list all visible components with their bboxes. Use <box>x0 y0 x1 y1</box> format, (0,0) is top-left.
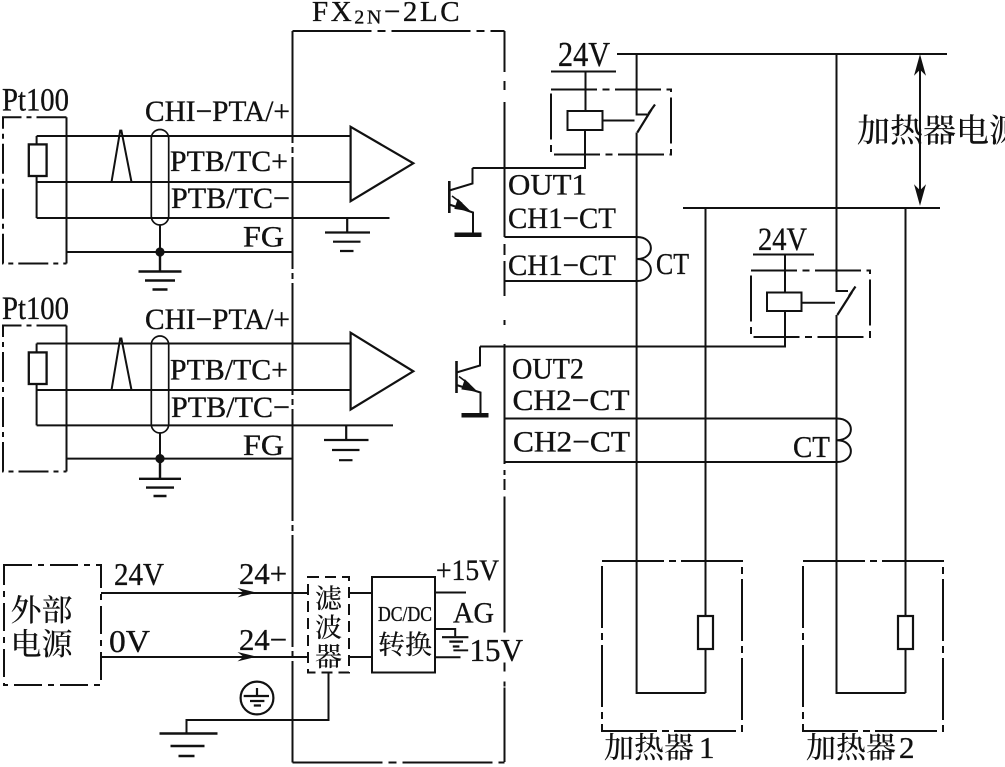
wire CH2-CT a (y418.5) <box>505 418 838 420</box>
resistor element RT1 <box>29 144 47 176</box>
wire PTB/TC+ ch2 (y390) <box>37 389 351 391</box>
wire heater2 feed lower <box>836 315 838 561</box>
label waibu-dianyuan <box>12 595 72 658</box>
svg-text:FG: FG <box>243 429 284 462</box>
CT coil 1 <box>637 237 651 281</box>
wire heater1 feed lower <box>636 133 638 562</box>
svg-text:CH2−CT: CH2−CT <box>513 426 630 459</box>
transistor Q2 <box>457 347 489 416</box>
resistor heater2 <box>898 616 913 649</box>
label zhuanhuan <box>379 631 431 656</box>
module FX2N-2LC outline <box>293 31 505 763</box>
svg-text:24V: 24V <box>758 222 807 258</box>
svg-text:1: 1 <box>699 730 715 765</box>
wire heater1 feed upper <box>637 54 649 115</box>
svg-text:FG: FG <box>243 221 284 254</box>
wire CH1-CT b (y281) <box>505 280 638 282</box>
ground AG <box>442 637 468 646</box>
svg-text:CT: CT <box>656 246 689 281</box>
svg-text:FX2N−2LC: FX2N−2LC <box>312 0 462 29</box>
protective earth circle <box>241 682 274 715</box>
wire shield to FG ch1 <box>159 225 161 252</box>
DC/DC converter box <box>372 577 435 673</box>
wire CH2-CT b (y462) <box>505 461 838 463</box>
ground FG ch2 <box>139 459 181 496</box>
wire FG ch1 (y252) <box>67 251 293 253</box>
ground ch2 internal <box>324 425 369 460</box>
wire K2 coil to contact <box>802 302 836 304</box>
wire RT1 leads <box>36 136 38 218</box>
wire 24V input <box>101 592 308 594</box>
Pt100 sensor box RT1 <box>3 117 67 263</box>
wire shield to FG ch2 <box>159 433 161 459</box>
svg-text:AG: AG <box>453 597 494 630</box>
op-amp U2 <box>351 333 414 410</box>
svg-text:24V: 24V <box>558 35 610 74</box>
wire CH1-PTA/+ (y136) <box>37 135 351 137</box>
filter box <box>308 577 349 673</box>
transistor Q1 <box>449 168 481 235</box>
wire PTB/TC- ch1 (y218) <box>37 217 390 219</box>
wire FG ch2 (y458.6) <box>67 458 293 460</box>
wire K1 coil to contact <box>603 120 635 122</box>
wire heater2 inside <box>837 561 906 693</box>
wire OUT1 (y168) <box>473 130 586 168</box>
relay K1 coil <box>568 111 603 130</box>
wire second rail (y208) <box>683 207 940 209</box>
break symbol ch1 <box>112 131 132 182</box>
wire 0V input <box>101 656 308 658</box>
heater 1 box <box>602 561 742 731</box>
node junction FG ch2 <box>155 454 164 463</box>
wire heater2 feed upper <box>837 54 849 291</box>
wire CH1-CT a (y237) <box>505 236 638 238</box>
ground ch1 internal <box>325 218 370 251</box>
relay K2 box <box>751 271 870 338</box>
wire heater1 return <box>705 208 707 693</box>
svg-text:Pt100: Pt100 <box>2 83 69 119</box>
svg-text:DC/DC: DC/DC <box>378 602 432 626</box>
resistor element RT2 <box>29 352 47 384</box>
wire heater1 inside <box>637 561 706 693</box>
arrow 24V input <box>238 588 258 597</box>
ground FG ch1 <box>139 252 182 290</box>
svg-text:CH1−CT: CH1−CT <box>508 249 616 282</box>
wire CH1-PTA/+ ch2 (y343.5) <box>37 343 351 345</box>
wire heater2 return <box>905 208 907 693</box>
op-amp U1 <box>351 127 414 201</box>
heater 2 box <box>803 561 943 731</box>
label lvboqi <box>316 585 342 668</box>
svg-text:PTB/TC+: PTB/TC+ <box>170 145 288 178</box>
label jiareqi-2 <box>807 730 915 765</box>
arrow heater power span <box>915 56 925 204</box>
label jiareqi-dianyuan <box>858 114 1005 145</box>
wire filter ground <box>187 673 329 734</box>
svg-text:+15V: +15V <box>436 554 499 587</box>
svg-text:0V: 0V <box>109 623 150 659</box>
terminal 24V relay2 <box>753 255 814 293</box>
svg-text:PTB/TC−: PTB/TC− <box>171 182 290 215</box>
svg-text:−15V: −15V <box>452 632 523 668</box>
wire PTB/TC+ ch1 (y182) <box>37 181 351 183</box>
external power box <box>4 565 101 685</box>
wire +15V stub <box>435 592 466 594</box>
wire top rail (y54) <box>617 53 947 55</box>
wire RT2 leads <box>36 344 38 426</box>
svg-text:CHI−PTA/+: CHI−PTA/+ <box>145 303 290 336</box>
wire PTB/TC- ch2 (y425.4) <box>37 424 393 426</box>
wire -15V stub <box>435 656 461 658</box>
svg-text:OUT2: OUT2 <box>512 353 584 386</box>
svg-text:24+: 24+ <box>239 556 287 591</box>
terminal 24V relay1 <box>551 72 616 112</box>
label jiareqi-1 <box>605 730 715 765</box>
shield capsule ch2 <box>151 336 168 433</box>
wire filter-dcdc b <box>349 656 372 658</box>
svg-text:24−: 24− <box>239 622 287 657</box>
Pt100 sensor box RT2 <box>3 326 67 472</box>
CT coil 2 <box>837 419 851 463</box>
svg-text:CH2−CT: CH2−CT <box>513 384 630 417</box>
svg-text:2: 2 <box>899 730 915 765</box>
contact K1 blade <box>637 105 655 133</box>
svg-text:CH1−CT: CH1−CT <box>508 202 616 235</box>
node junction FG ch1 <box>155 247 164 256</box>
svg-text:OUT1: OUT1 <box>508 169 587 202</box>
svg-text:CT: CT <box>793 429 830 464</box>
relay K2 coil <box>767 293 802 312</box>
svg-text:PTB/TC+: PTB/TC+ <box>170 354 288 387</box>
svg-text:CHI−PTA/+: CHI−PTA/+ <box>145 95 290 128</box>
svg-text:PTB/TC−: PTB/TC− <box>171 391 290 424</box>
contact K2 blade <box>837 287 855 316</box>
shield capsule ch1 <box>151 130 168 226</box>
break symbol ch2 <box>112 339 132 391</box>
ground external <box>160 734 218 757</box>
svg-text:Pt100: Pt100 <box>2 291 69 327</box>
svg-text:24V: 24V <box>114 556 164 592</box>
relay K1 box <box>551 90 671 155</box>
arrow 0V input <box>238 652 258 661</box>
wire AG stub <box>435 629 455 636</box>
wire OUT2 (y347.5) <box>480 311 785 347</box>
resistor heater1 <box>698 616 713 649</box>
wire filter-dcdc a <box>349 592 372 594</box>
